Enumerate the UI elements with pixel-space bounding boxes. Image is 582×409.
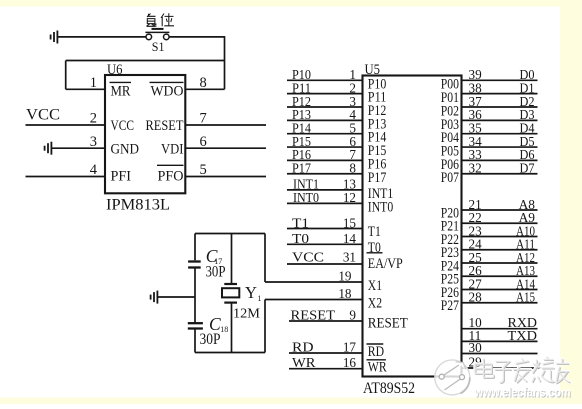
wire crystal top rail bbox=[195, 233, 265, 235]
svg-text:WDO: WDO bbox=[151, 84, 184, 100]
pushbutton S1 actuator bar bbox=[145, 31, 169, 33]
svg-text:32: 32 bbox=[469, 161, 482, 176]
svg-text:3: 3 bbox=[90, 134, 97, 150]
wire U5 pin 36 to D3 net bbox=[462, 119, 538, 121]
wire U5 pin 38 to D1 net bbox=[462, 93, 538, 95]
svg-text:U6: U6 bbox=[107, 62, 123, 78]
svg-text:D7: D7 bbox=[520, 161, 535, 176]
svg-text:4: 4 bbox=[90, 162, 98, 178]
svg-text:S1: S1 bbox=[152, 39, 165, 54]
wire pin 8 of U6 bbox=[185, 88, 224, 90]
svg-text:P17: P17 bbox=[368, 170, 387, 186]
wire P13 net to U5 pin 4 bbox=[287, 119, 363, 121]
svg-text:VCC: VCC bbox=[292, 249, 324, 264]
svg-text:PFI: PFI bbox=[111, 169, 132, 185]
pushbutton S1 contacts bbox=[146, 34, 152, 40]
mcu U5 chip body bbox=[363, 76, 462, 377]
svg-text:A15: A15 bbox=[516, 290, 535, 305]
svg-text:12: 12 bbox=[343, 190, 356, 205]
wire U5 pin 27 to A14 net bbox=[462, 289, 538, 291]
wire P12 net to U5 pin 3 bbox=[287, 106, 363, 108]
wire crystal stem lower bbox=[231, 303, 233, 353]
svg-text:RD: RD bbox=[368, 344, 384, 360]
wire P15 net to U5 pin 6 bbox=[287, 146, 363, 148]
wire VCC net to U5 pin 31 bbox=[287, 263, 363, 265]
wire WR net to U5 pin 16 bbox=[289, 368, 363, 370]
wire crystal stem upper bbox=[231, 234, 233, 285]
svg-text:18: 18 bbox=[220, 325, 228, 334]
capacitor C17 bbox=[188, 260, 201, 262]
wire U5 pin 35 to D4 net bbox=[462, 133, 538, 135]
svg-text:WR: WR bbox=[292, 355, 316, 370]
svg-text:RESET: RESET bbox=[368, 315, 408, 331]
wire U5 pin 34 to D5 net bbox=[462, 146, 538, 148]
wire pin 4 of U6 (PFI) bbox=[26, 176, 106, 178]
wire right branch lower (X2 to bottom rail) bbox=[264, 300, 266, 353]
svg-text:RESET: RESET bbox=[291, 307, 336, 322]
wire P14 net to U5 pin 5 bbox=[287, 133, 363, 135]
svg-text:1: 1 bbox=[258, 294, 262, 303]
wire X1 to U5 pin 19 bbox=[265, 281, 363, 283]
wire U5 pin 33 to D6 net bbox=[462, 159, 538, 161]
svg-text:18: 18 bbox=[338, 286, 352, 301]
wire RD net to U5 pin 17 bbox=[289, 352, 363, 354]
wire X2 to U5 pin 18 bbox=[265, 299, 363, 301]
svg-text:X2: X2 bbox=[368, 296, 382, 312]
svg-text:8: 8 bbox=[349, 161, 356, 176]
wire T1 net to U5 pin 15 bbox=[287, 228, 363, 230]
svg-text:INT0: INT0 bbox=[293, 190, 319, 205]
supervisor U6 chip body bbox=[105, 75, 185, 193]
wire INT1 net to U5 pin 13 bbox=[287, 189, 363, 191]
svg-text:8: 8 bbox=[200, 75, 207, 91]
svg-text:RD: RD bbox=[292, 339, 314, 354]
svg-text:INT0: INT0 bbox=[368, 199, 393, 215]
wire U5 pin 22 to A9 net bbox=[462, 222, 538, 224]
wire U5 pin 32 to D7 net bbox=[462, 173, 538, 175]
svg-text:30P: 30P bbox=[206, 263, 226, 280]
svg-text:RESET: RESET bbox=[146, 118, 184, 134]
wire P10 net to U5 pin 1 bbox=[287, 79, 363, 81]
wire U5 pin 25 to A12 net bbox=[462, 262, 538, 264]
svg-text:EA/VP: EA/VP bbox=[368, 256, 403, 272]
wire right vertical of reset loop bbox=[224, 36, 226, 89]
svg-text:X1: X1 bbox=[368, 278, 382, 294]
ground G2 (U6 GND) bbox=[45, 142, 52, 155]
wire top of reset loop bbox=[66, 60, 225, 62]
svg-text:P17: P17 bbox=[292, 161, 311, 176]
svg-text:14: 14 bbox=[343, 231, 357, 246]
crystal Y1 bbox=[224, 283, 237, 285]
ground G1 (reset switch) bbox=[51, 31, 58, 44]
svg-text:17: 17 bbox=[343, 339, 357, 354]
svg-text:15: 15 bbox=[343, 215, 357, 230]
svg-text:30: 30 bbox=[469, 340, 483, 355]
svg-text:MR: MR bbox=[111, 84, 131, 100]
svg-text:31: 31 bbox=[343, 249, 356, 264]
capacitor C18 bbox=[188, 322, 203, 324]
svg-text:PFO: PFO bbox=[158, 169, 184, 185]
label 复位 (reset) bbox=[147, 13, 175, 26]
watermark logo circle bbox=[435, 360, 470, 395]
wire U5 pin 23 to A10 net bbox=[462, 236, 538, 238]
svg-text:VCC: VCC bbox=[111, 118, 135, 134]
wire P16 net to U5 pin 7 bbox=[287, 159, 363, 161]
wire U5 pin 24 to A11 net bbox=[462, 249, 538, 251]
svg-text:30P: 30P bbox=[200, 331, 221, 348]
svg-text:WR: WR bbox=[368, 360, 387, 376]
wire U5 pin 39 to D0 net bbox=[462, 79, 538, 81]
svg-text:2: 2 bbox=[90, 111, 97, 127]
wire P11 net to U5 pin 2 bbox=[287, 93, 363, 95]
wire left branch middle (C17 to C18) bbox=[194, 268, 196, 324]
wire crystal bottom rail bbox=[195, 352, 265, 354]
svg-text:5: 5 bbox=[200, 162, 207, 178]
wire pin 5 of U6 bbox=[185, 176, 266, 178]
wire U5 pin 30 bbox=[462, 353, 538, 355]
wire S1 to right vertical bbox=[169, 36, 224, 38]
watermark text 电子发烧友 bbox=[475, 357, 570, 384]
svg-text:IPM813L: IPM813L bbox=[106, 197, 170, 214]
svg-text:7: 7 bbox=[200, 111, 207, 127]
wire T0 net to U5 pin 14 bbox=[287, 243, 363, 245]
svg-text:16: 16 bbox=[343, 355, 357, 370]
wire U5 pin 21 to A8 net bbox=[462, 209, 538, 211]
wire pin 3 of U6 (GND) bbox=[51, 147, 105, 149]
wire ground G1 to S1 bbox=[57, 36, 146, 38]
wire U5 pin 11 to TXD net bbox=[462, 340, 538, 342]
svg-text:VDI: VDI bbox=[161, 142, 184, 158]
wire pin 1 of U6 bbox=[66, 88, 105, 90]
wire U5 pin 29 bbox=[462, 367, 541, 369]
svg-text:9: 9 bbox=[349, 307, 356, 322]
wire U5 pin 37 to D2 net bbox=[462, 106, 538, 108]
svg-text:P07: P07 bbox=[441, 170, 459, 186]
wire U5 pin 10 to RXD net bbox=[462, 328, 538, 330]
svg-text:12M: 12M bbox=[233, 307, 261, 322]
underline of 复位 bbox=[152, 28, 164, 30]
wire pin 6 of U6 bbox=[185, 147, 266, 149]
wire ground G3 to left branch bbox=[157, 296, 195, 298]
svg-text:T0: T0 bbox=[292, 231, 309, 246]
wire left branch lower (C18 to bottom rail) bbox=[194, 329, 196, 353]
svg-text:GND: GND bbox=[111, 142, 140, 158]
wire pin 2 of U6 (VCC) bbox=[26, 124, 106, 126]
wire P17 net to U5 pin 8 bbox=[287, 173, 363, 175]
svg-text:T1: T1 bbox=[292, 215, 309, 230]
svg-text:1: 1 bbox=[90, 75, 97, 91]
svg-text:6: 6 bbox=[200, 134, 207, 150]
svg-text:TXD: TXD bbox=[508, 328, 538, 343]
wire left branch upper (to C17) bbox=[194, 234, 196, 261]
svg-text:P27: P27 bbox=[441, 298, 459, 314]
svg-text:www.elecfans.com: www.elecfans.com bbox=[474, 386, 571, 400]
wire U5 pin 28 to A15 net bbox=[462, 302, 538, 304]
svg-text:Y: Y bbox=[245, 283, 257, 302]
svg-text:T1: T1 bbox=[368, 224, 381, 240]
wire U5 pin 26 to A13 net bbox=[462, 275, 538, 277]
wire right branch upper (to X1) bbox=[264, 234, 266, 283]
ground G3 (crystal) bbox=[151, 291, 158, 304]
wire left vertical of reset loop bbox=[65, 61, 67, 90]
svg-text:AT89S52: AT89S52 bbox=[363, 380, 415, 397]
svg-text:VCC: VCC bbox=[26, 107, 60, 124]
svg-text:19: 19 bbox=[338, 268, 352, 283]
wire pin 7 of U6 (RESET out) bbox=[185, 124, 266, 126]
svg-text:28: 28 bbox=[469, 290, 483, 305]
wire INT0 net to U5 pin 12 bbox=[287, 202, 363, 204]
wire RESET net to U5 pin 9 bbox=[289, 320, 363, 322]
